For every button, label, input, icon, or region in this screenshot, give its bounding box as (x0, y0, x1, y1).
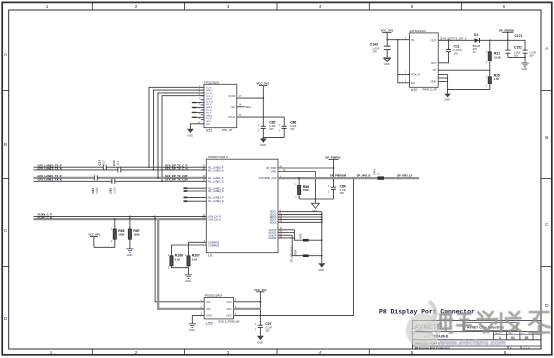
svg-text:C151: C151 (514, 46, 522, 50)
svg-text:D2_P: D2_P (206, 104, 212, 106)
resistor R108 (168, 254, 183, 270)
svg-text:AUXTERM_CAP: AUXTERM_CAP (258, 177, 276, 180)
wire R88 C84 bottom tie (299, 198, 333, 200)
wire GFX_LANE1_TX_N (gap for C82) (34, 180, 112, 182)
svg-text:VCCA: VCCA (228, 116, 235, 119)
capacitor C171 (515, 34, 537, 63)
svg-text:12 x 17: 12 x 17 (523, 348, 531, 350)
svg-text:16V: 16V (372, 49, 377, 53)
svg-text:NC2: NC2 (227, 315, 233, 318)
svg-text:15V: 15V (340, 192, 345, 195)
svg-text:6: 6 (504, 350, 507, 355)
resistor R21 (438, 39, 501, 70)
svg-text:ESD_5_PGND_BK: ESD_5_PGND_BK (219, 321, 241, 324)
power flag VCC_3V3 (above C97) (254, 288, 267, 325)
wire R108 top to COMPIN2 (172, 245, 207, 256)
zone tick marks bottom (92, 349, 369, 355)
svg-text:5.0V_SETVY3_CRT_A: 5.0V_SETVY3_CRT_A (441, 37, 467, 40)
capacitor C97 (255, 322, 273, 336)
wire U25 VCC pin to rail (234, 301, 261, 303)
wire U15 GND pin (190, 124, 204, 129)
gnd arrow (hollow) below HPD wire (311, 203, 319, 208)
resistor R85 (299, 233, 323, 241)
svg-text:C97: C97 (265, 322, 271, 326)
svg-text:16V: 16V (514, 54, 519, 57)
wire D1 to output node (480, 39, 526, 41)
zone tick marks right (541, 91, 552, 267)
svg-text:AUX_CH_N: AUX_CH_N (208, 219, 221, 222)
svg-text:GND: GND (260, 143, 266, 147)
svg-text:U25: U25 (206, 321, 213, 325)
svg-text:DP_HPD_B: DP_HPD_B (357, 174, 371, 178)
wire U15 VCCA pin to C86 (237, 117, 284, 126)
IC U25 body (204, 295, 240, 326)
svg-text:.1UF: .1UF (117, 160, 120, 166)
power flag DP_PWR50 (above C84) (325, 155, 341, 187)
svg-text:GND: GND (319, 268, 325, 272)
capacitor C10 (series on lane0 N) (112, 160, 121, 172)
svg-text:C143: C143 (370, 43, 378, 47)
svg-text:U20: U20 (411, 88, 418, 92)
svg-text:FB4: FB4 (373, 169, 377, 175)
rev cells headers (495, 332, 539, 335)
svg-text:.1UF: .1UF (103, 160, 106, 166)
svg-text:DDC5: DDC5 (270, 221, 277, 224)
svg-text:GND: GND (127, 253, 133, 257)
svg-text:4: 4 (319, 4, 322, 9)
svg-text:AUXP_C_N: AUXP_C_N (38, 215, 52, 219)
svg-text:1: 1 (50, 350, 53, 355)
wire U25 NC1 gray stub (234, 308, 262, 310)
svg-text:5.1K: 5.1K (192, 257, 198, 261)
wire R107 top to COMPIN1 (189, 242, 207, 256)
svg-text:R84: R84 (294, 249, 298, 255)
capacitor C13 (series on lane0 P) (97, 160, 106, 170)
svg-text:C84: C84 (340, 184, 346, 188)
wire R108 R107 bottoms tie (172, 266, 189, 275)
wire VCC_3V3 down to C143 (386, 33, 388, 47)
svg-text:DP_PWR50: DP_PWR50 (325, 155, 341, 159)
svg-text:25V: 25V (269, 128, 274, 131)
svg-text:DP_PWR50: DP_PWR50 (499, 28, 515, 32)
power flag VCC_DPL (bias for R89) (89, 233, 102, 248)
svg-text:10.0K: 10.0K (494, 55, 501, 59)
wire cap bottoms tie (263, 137, 284, 139)
svg-text:DET: DET (206, 124, 211, 126)
svg-text:C81: C81 (91, 188, 95, 194)
svg-text:VCC_3V3: VCC_3V3 (381, 28, 394, 32)
svg-text:2.2UF: 2.2UF (96, 187, 99, 194)
wire GFX_LANE1_TX_P gray highlighted (gap for C81) (34, 177, 95, 179)
svg-text:HPD: HPD (206, 121, 211, 123)
IC U20 regulator body (410, 29, 443, 92)
svg-text:GFX_DP_TX_C_N: GFX_DP_TX_C_N (165, 167, 188, 171)
U15 unconnected left stubs with net flags (197, 103, 205, 118)
svg-text:D0_N: D0_N (206, 118, 212, 120)
svg-text:R15: R15 (494, 73, 500, 77)
svg-text:C85: C85 (269, 120, 275, 124)
svg-text:GFX_LANE0_TX_N: GFX_LANE0_TX_N (38, 167, 62, 171)
wire U20 lower pins to gnd bundle (438, 75, 447, 94)
svg-text:EN: EN (411, 81, 415, 85)
resistor R107 (185, 254, 200, 270)
svg-text:R89: R89 (118, 229, 124, 233)
svg-text:D1_P: D1_P (206, 87, 212, 89)
svg-text:IO1: IO1 (206, 301, 211, 304)
U25 pin names (206, 301, 212, 318)
svg-text:6: 6 (503, 4, 506, 9)
svg-text:4.7K: 4.7K (494, 77, 500, 81)
svg-text:BYP: BYP (431, 61, 436, 65)
svg-text:GND: GND (522, 67, 528, 71)
svg-text:GFX_DP_TX_C2N: GFX_DP_TX_C2N (165, 178, 188, 182)
svg-text:C11: C11 (454, 45, 460, 49)
row letters left (4, 52, 8, 322)
svg-text:DP_HPD_LA: DP_HPD_LA (397, 174, 413, 178)
svg-text:2: 2 (135, 350, 138, 355)
net labels right of caps at U1 (165, 163, 188, 181)
svg-text:C86: C86 (290, 120, 296, 124)
resistor R88 (295, 177, 309, 199)
svg-text:TPD12S016: TPD12S016 (204, 80, 220, 84)
wire U15 pin1 to bus lane0 P (149, 87, 204, 167)
svg-text:VCC_3V3: VCC_3V3 (254, 288, 267, 292)
capacitor C143 (370, 43, 391, 58)
ground under U25 (189, 324, 196, 328)
svg-text:CLK_P: CLK_P (206, 96, 213, 98)
svg-text:ML_LANE0_N: ML_LANE0_N (208, 169, 224, 172)
svg-text:GFX_LANE1_TX_P: GFX_LANE1_TX_P (38, 174, 62, 178)
capacitor C84 (328, 184, 346, 199)
svg-text:REG: REG (246, 106, 251, 109)
svg-text:2: 2 (135, 4, 138, 9)
svg-text:100K: 100K (303, 188, 309, 192)
ground under U15 (187, 129, 194, 133)
resistor R84 (294, 249, 323, 257)
svg-text:GFX_DP_TX_C2P: GFX_DP_TX_C2P (165, 174, 188, 178)
zone tick marks top (92, 3, 461, 11)
svg-text:D2_N: D2_N (206, 110, 212, 112)
wire U25 NC2 long run right and up to HPD net (234, 178, 354, 316)
ground arrow under U20 (444, 94, 450, 98)
svg-text:AUX2N: AUX2N (268, 237, 276, 240)
rev cells values (499, 336, 528, 340)
U1 left pin names (208, 166, 224, 247)
net labels AUX left (38, 213, 53, 220)
svg-text:4: 4 (319, 350, 322, 355)
net labels left lane bus (38, 163, 62, 181)
U1 right pin numbers (280, 166, 287, 238)
svg-text:1A: 1A (473, 51, 476, 54)
svg-text:25V: 25V (454, 51, 459, 55)
svg-text:GND: GND (206, 315, 212, 318)
wire aux join to R84 (292, 235, 303, 256)
svg-text:GND: GND (187, 133, 193, 137)
svg-text:100K: 100K (133, 232, 139, 236)
svg-text:GND: GND (431, 79, 437, 83)
ground under C171 (521, 63, 529, 67)
svg-text:IO2: IO2 (206, 308, 211, 311)
zone numbers bottom (50, 350, 507, 355)
svg-text:IN: IN (411, 38, 414, 42)
svg-text:G: G (378, 173, 380, 175)
wire U20 EN tie to IN (398, 40, 410, 83)
svg-text:DP_HPD_AUX: DP_HPD_AUX (291, 246, 294, 262)
svg-text:R88: R88 (303, 185, 309, 189)
svg-text:OUT: OUT (430, 38, 436, 42)
svg-text:B: B (545, 135, 548, 141)
wire HPD pin down to arrow (278, 172, 315, 204)
svg-text:GND1: GND1 (206, 90, 213, 92)
IC U15 body (204, 80, 237, 132)
wire DDC vertical bus down to gnd (321, 212, 323, 264)
svg-text:25V: 25V (290, 128, 295, 131)
ground under R107 (185, 275, 192, 279)
svg-text:GND: GND (189, 328, 195, 332)
wire U15 NC stub (237, 106, 245, 108)
node IN junction (386, 39, 388, 41)
U1 right pin names (258, 167, 277, 240)
ground under C85 C86 (260, 139, 267, 143)
capacitor C85 (258, 120, 277, 137)
svg-text:CLK_N: CLK_N (206, 101, 213, 103)
svg-text:5: 5 (411, 350, 414, 355)
svg-text:GND: GND (185, 279, 191, 283)
U15 right pin names (228, 95, 236, 119)
ground under C97 (257, 336, 264, 340)
svg-text:R107: R107 (192, 254, 200, 258)
svg-text:R85: R85 (299, 233, 303, 239)
ground under R87 (126, 249, 133, 253)
capacitor C81 (series on lane1 P) (91, 175, 99, 193)
power flag VCC_3V3 (left of U20) (381, 28, 394, 32)
U15 left pin names (206, 87, 213, 125)
capacitor C86 (279, 120, 298, 137)
wire U25 GND pin (192, 316, 204, 324)
svg-text:VCC5: VCC5 (228, 95, 235, 98)
wire GFX_LANE0_TX_P (with gap for C13) (34, 166, 104, 168)
svg-text:VCC_3V3: VCC_3V3 (257, 81, 270, 85)
wire aux join to R85 (295, 230, 303, 240)
wire U15 VCC5 pin to VCC rail (237, 97, 263, 99)
svg-text:C10: C10 (112, 160, 116, 166)
wire AUXP_C_N gray highlighted (34, 218, 207, 220)
diode D1 (473, 33, 481, 54)
wire IN node to U20 pin IN (387, 39, 409, 41)
svg-text:GND4: GND4 (206, 115, 213, 117)
ferrite bead FB4 (373, 169, 384, 180)
capacitor C82 (series on lane1 N) (109, 179, 117, 194)
svg-text:3: 3 (227, 350, 230, 355)
resistor R87 (128, 216, 139, 249)
svg-text:ML_LANE1_N: ML_LANE1_N (208, 180, 224, 183)
svg-text:C: C (4, 228, 8, 234)
svg-text:C13: C13 (97, 160, 101, 166)
svg-text:D: D (545, 303, 549, 309)
svg-text:POK_R: POK_R (411, 73, 420, 77)
svg-text:COMPIN2: COMPIN2 (208, 245, 220, 248)
svg-text:AAT3221IGV: AAT3221IGV (410, 29, 426, 33)
svg-text:HPD: HPD (271, 170, 276, 173)
svg-text:U1: U1 (208, 254, 213, 258)
zone tick marks left (3, 91, 9, 267)
svg-text:D: D (4, 316, 8, 322)
svg-text:PWR_5_AP: PWR_5_AP (423, 88, 438, 92)
svg-text:R21: R21 (494, 52, 500, 56)
resistor R15 (448, 70, 500, 89)
svg-text:GND2: GND2 (206, 99, 213, 101)
svg-text:GND3: GND3 (206, 107, 213, 109)
wire U15 pin4 to bus lane1 N (162, 96, 204, 182)
wire AUXN_C_P (34, 215, 207, 217)
ground under C143 (383, 58, 391, 62)
svg-text:2.2UF: 2.2UF (114, 187, 117, 194)
wire cap bottoms tie (508, 56, 525, 58)
capacitor C11 (438, 39, 462, 62)
svg-text:SII164CTG64 X: SII164CTG64 X (208, 155, 228, 159)
wire U15 pin2 to bus lane0 N (154, 90, 205, 170)
IC U1 body (206, 155, 278, 258)
svg-text:00: 00 (525, 336, 529, 340)
wire U15 pin3 to bus lane1 P (158, 93, 204, 178)
svg-text:ML_LANE2_N: ML_LANE2_N (208, 190, 224, 193)
wire U20 OUT rail (438, 39, 474, 41)
wire GFX_LANE0_TX_N (with gap for C10) (34, 169, 118, 171)
svg-text:NC1: NC1 (227, 308, 233, 311)
svg-text:C171: C171 (515, 34, 523, 38)
svg-text:1: 1 (46, 4, 49, 9)
U15 pin stubs and numbers (201, 90, 204, 120)
svg-text:C82: C82 (109, 188, 113, 194)
svg-text:16V: 16V (529, 54, 534, 57)
svg-text:GND: GND (257, 340, 263, 344)
svg-text:U15: U15 (206, 129, 213, 133)
svg-text:ML_LANE3_P: ML_LANE3_P (208, 197, 224, 200)
svg-text:01: 01 (511, 336, 515, 340)
resistor R89 (94, 218, 125, 247)
power flag VCC_3V3 (above C85) (257, 81, 270, 126)
svg-text:OK: OK (433, 68, 437, 72)
svg-text:D1_N: D1_N (206, 93, 212, 95)
svg-text:ML_LANE3_N: ML_LANE3_N (208, 200, 224, 203)
svg-text:www.elecfans.com: www.elecfans.com (439, 338, 506, 347)
svg-text:R87: R87 (133, 229, 139, 233)
svg-text:C: C (545, 222, 549, 228)
wire AUXTERM gray net to FB4 (278, 177, 378, 179)
ground under DDC bus (318, 263, 325, 267)
row letters right (545, 46, 549, 309)
svg-text:GND: GND (444, 98, 450, 102)
svg-text:D1: D1 (474, 33, 478, 37)
svg-text:DP_PWR50M: DP_PWR50M (330, 174, 346, 178)
wire AUX black vertical down to U25 pin1 (155, 216, 204, 301)
svg-text:GFX_LANE1_TX_N: GFX_LANE1_TX_N (38, 178, 62, 182)
capacitor C151 (505, 46, 522, 58)
svg-text:DOC: DOC (522, 333, 527, 335)
svg-text:B: B (4, 142, 7, 148)
svg-text:NC: NC (231, 106, 235, 109)
svg-text:100K: 100K (118, 232, 124, 236)
svg-text:PAD_CP: PAD_CP (222, 128, 232, 132)
power flag DP_PWR50 (top right) (499, 28, 515, 50)
svg-text:R108: R108 (175, 254, 183, 258)
node junctions bus to U15 feeders (148, 166, 150, 168)
wire DP_PWR pin to flag riser (278, 167, 334, 169)
svg-text:VCC: VCC (226, 301, 231, 304)
U1 left pin numbers (202, 166, 205, 243)
svg-text:5: 5 (411, 4, 414, 9)
svg-text:VCC_DPL: VCC_DPL (89, 233, 102, 237)
svg-text:D0_P: D0_P (206, 113, 212, 115)
svg-text:3: 3 (227, 4, 230, 9)
svg-text:5.1K: 5.1K (175, 257, 181, 261)
svg-text:25V: 25V (265, 329, 270, 332)
title block table (413, 321, 542, 350)
wire AUX gray vertical down to U25 pin2 (158, 219, 204, 309)
U1 unconnected lane2 lane3 stubs (184, 188, 206, 201)
zone numbers top (46, 4, 506, 9)
svg-text:GND: GND (384, 62, 390, 66)
